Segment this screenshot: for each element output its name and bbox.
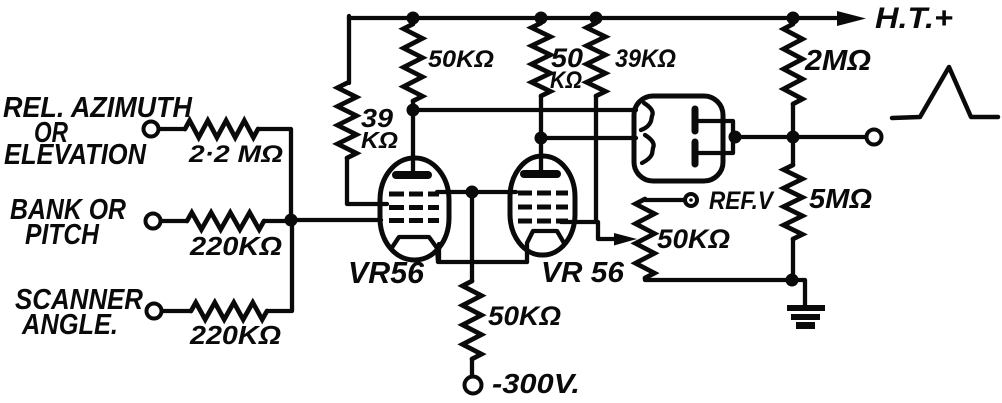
wire input1 lead <box>159 127 185 131</box>
node dot output 793,137 <box>787 131 800 144</box>
wire cathode bus <box>439 244 527 262</box>
terminal SCANNER input circle <box>147 304 162 319</box>
resistor 50K tail zigzag <box>463 281 482 359</box>
svg-text:KΩ: KΩ <box>550 67 582 94</box>
wire diode out to output node <box>733 135 866 139</box>
svg-text:ELEVATION: ELEVATION <box>4 139 147 171</box>
tube V2 grid dashes <box>518 193 568 221</box>
node dot rail x413 <box>407 12 420 25</box>
wire tube2 grid to pot arrow <box>596 222 616 239</box>
resistor R39 left zigzag <box>338 83 357 158</box>
svg-text:220KΩ: 220KΩ <box>189 320 281 350</box>
wire tail to -300V terminal <box>470 359 474 376</box>
wire 50K1 lead to tube1 anode <box>411 18 415 173</box>
terminal -300V circle <box>465 377 482 394</box>
wire 39K left lead to tube1 grid <box>347 158 387 204</box>
svg-text:VR 56: VR 56 <box>541 257 625 289</box>
svg-text:39KΩ: 39KΩ <box>615 45 676 73</box>
wire jog to ground <box>792 280 805 306</box>
wire pot top to REF.V <box>645 199 684 200</box>
svg-text:5MΩ: 5MΩ <box>809 183 872 214</box>
waveform symbol <box>892 67 998 118</box>
svg-text:H.T.+: H.T.+ <box>875 2 953 35</box>
svg-text:50KΩ: 50KΩ <box>428 46 494 73</box>
terminal REF.V circle <box>685 194 697 206</box>
node dot ground junction <box>786 274 799 287</box>
resistor 220K second zigzag <box>191 303 267 320</box>
node dot rail x596 <box>590 12 603 25</box>
wire 39K top lead down to tube2 grid right <box>561 18 596 222</box>
svg-text:KΩ: KΩ <box>361 127 398 153</box>
node dot inter-tube <box>466 186 479 199</box>
tube V2 cathode <box>527 231 564 262</box>
node dot input junction <box>285 214 298 227</box>
potentiometer 50K zigzag <box>636 199 655 278</box>
svg-text:VR56: VR56 <box>348 255 425 290</box>
wire diode cathode1 feed <box>413 108 636 112</box>
wire 2M leads <box>791 18 795 137</box>
resistor 220K first zigzag <box>187 213 264 230</box>
svg-text:REL. AZIMUTH: REL. AZIMUTH <box>3 92 193 124</box>
node dot 541,138 <box>535 132 548 145</box>
svg-text:ANGLE.: ANGLE. <box>21 309 118 341</box>
resistor 50K first zigzag <box>404 24 423 101</box>
tube V1 anode bar <box>396 171 428 179</box>
wire junction to tube1 grid <box>291 218 381 222</box>
tube V2 envelope <box>510 156 575 255</box>
wire HT rail <box>349 16 845 20</box>
svg-text:PITCH: PITCH <box>25 219 100 251</box>
terminal REL input circle <box>144 122 159 137</box>
terminal BANK input circle <box>146 214 161 229</box>
resistor 50K second zigzag <box>532 23 551 96</box>
wire 5M leads <box>791 137 795 280</box>
wire inter-tube grid link <box>437 190 516 194</box>
wire 50K2 lead to tube2 anode <box>539 18 543 172</box>
svg-text:-300V.: -300V. <box>492 368 580 399</box>
svg-text:REF.V: REF.V <box>709 187 775 215</box>
wire input2 lead <box>161 219 187 223</box>
wire pot bottom to ground junction <box>645 278 792 280</box>
resistor 39K top zigzag <box>587 23 606 96</box>
wire input3 lead <box>162 309 191 313</box>
svg-text:220KΩ: 220KΩ <box>189 231 282 261</box>
wire rail left drop to 39K left <box>347 16 351 83</box>
resistor 5M zigzag <box>784 165 803 239</box>
node dot 413,110 <box>407 104 420 117</box>
pot arrowhead <box>614 233 637 246</box>
tube V2 anode bar <box>524 170 557 178</box>
tube V3 anode bar 2 <box>692 142 699 164</box>
wire input1 to junction <box>258 129 291 220</box>
ground symbol <box>787 305 825 329</box>
svg-text:50KΩ: 50KΩ <box>488 301 561 331</box>
resistor 2.2M zigzag <box>185 121 258 138</box>
tube V3 anode bar 1 <box>692 109 699 131</box>
node dot rail x793 <box>787 12 800 25</box>
wire diode cathode2 feed <box>541 136 636 140</box>
wire anode1 lead <box>697 121 733 153</box>
tube V3 diode envelope <box>634 96 723 181</box>
svg-text:50KΩ: 50KΩ <box>657 224 730 254</box>
svg-text:2MΩ: 2MΩ <box>804 45 871 77</box>
tube V1 envelope <box>380 158 449 260</box>
HT+ arrowhead <box>837 11 866 26</box>
tube V1 grid dashes <box>389 194 439 221</box>
wire input2 to junction <box>264 219 291 223</box>
tube V1 cathode <box>391 237 438 262</box>
node dot rail x541 <box>535 12 548 25</box>
REF.V center dot <box>689 198 693 202</box>
node dot diode out <box>729 131 742 144</box>
svg-text:2·2 MΩ: 2·2 MΩ <box>188 141 283 168</box>
wire input3 to junction riser <box>267 221 292 311</box>
terminal output circle <box>867 130 882 145</box>
wire tail riser <box>470 192 474 281</box>
resistor 2M zigzag <box>784 24 803 104</box>
tube V3 cathode 1 <box>641 103 653 130</box>
tube V3 cathode 2 <box>642 135 654 163</box>
